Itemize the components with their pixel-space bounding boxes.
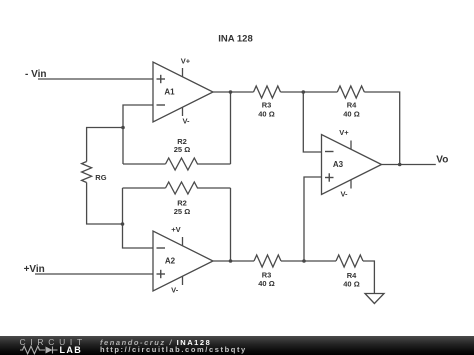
wire R2 bottom right end down to A2 output node bbox=[230, 188, 232, 261]
node RG top junction bbox=[121, 126, 125, 130]
wire R4 top to Vo node bbox=[364, 92, 399, 165]
svg-text:40 Ω: 40 Ω bbox=[343, 110, 359, 119]
wire node B vertical to A2 - input bbox=[123, 188, 154, 248]
svg-text:A1: A1 bbox=[164, 88, 175, 97]
wire -Vin to A1 + input bbox=[38, 78, 153, 80]
op-amp A3 bbox=[322, 135, 382, 195]
wire A3 - input up to top rail bbox=[303, 92, 321, 152]
wire R4 bottom to ground bbox=[363, 261, 374, 294]
wire A3 + input down to bottom rail bbox=[304, 177, 322, 261]
svg-text:V+: V+ bbox=[181, 57, 191, 66]
svg-text:RG: RG bbox=[95, 173, 106, 182]
resistor R4 top bbox=[337, 86, 364, 98]
svg-text:R4: R4 bbox=[347, 101, 357, 110]
wire A2 output to R3 bottom bbox=[213, 260, 254, 262]
svg-text:+V: +V bbox=[171, 225, 180, 234]
svg-text:40 Ω: 40 Ω bbox=[343, 280, 359, 289]
svg-text:+Vin: +Vin bbox=[24, 264, 45, 275]
svg-text:40 Ω: 40 Ω bbox=[258, 279, 274, 288]
svg-text:40 Ω: 40 Ω bbox=[258, 110, 274, 119]
svg-text:A2: A2 bbox=[165, 257, 176, 266]
resistor R4 bottom bbox=[336, 255, 363, 267]
resistor R3 top bbox=[254, 86, 281, 98]
wire A3 output to Vo bbox=[382, 164, 436, 166]
resistor RG bbox=[82, 162, 92, 183]
op-amp A2 bbox=[153, 231, 213, 291]
wire RG bottom link bbox=[87, 183, 123, 225]
svg-text:R3: R3 bbox=[262, 101, 272, 110]
node bottom rail A3 plus tap bbox=[302, 259, 306, 263]
wire RG top link bbox=[87, 128, 123, 162]
node A2 output bbox=[229, 259, 233, 263]
resistor R2 top bbox=[123, 158, 231, 170]
wire A1 output to R3 bbox=[213, 91, 254, 93]
wire R2 top right end up to A1 output node bbox=[230, 92, 232, 164]
svg-text:V-: V- bbox=[182, 117, 190, 126]
node top rail A3 minus tap bbox=[302, 90, 306, 94]
svg-text:A3: A3 bbox=[333, 160, 344, 169]
svg-text:Vo: Vo bbox=[436, 155, 448, 166]
ground bbox=[365, 294, 384, 304]
resistor R2 bottom bbox=[123, 182, 231, 194]
svg-text:25 Ω: 25 Ω bbox=[174, 145, 190, 154]
wire R3 bottom to R4 bottom bbox=[281, 260, 336, 262]
svg-text:INA 128: INA 128 bbox=[218, 34, 253, 45]
resistor R3 bottom bbox=[254, 255, 281, 267]
svg-text:- Vin: - Vin bbox=[25, 69, 46, 80]
node RG bottom junction bbox=[121, 222, 125, 226]
svg-text:25 Ω: 25 Ω bbox=[174, 207, 190, 216]
op-amp A1 bbox=[153, 62, 213, 122]
svg-text:V+: V+ bbox=[339, 128, 349, 137]
wire A1 - input left and down to node A bbox=[123, 105, 153, 164]
wire R3 to R4 top bbox=[281, 91, 338, 93]
node Vo bbox=[398, 163, 402, 167]
wire +Vin to A2 + input bbox=[35, 273, 153, 275]
svg-text:V-: V- bbox=[340, 190, 348, 199]
svg-text:V-: V- bbox=[171, 286, 179, 295]
node A1 output bbox=[229, 90, 233, 94]
